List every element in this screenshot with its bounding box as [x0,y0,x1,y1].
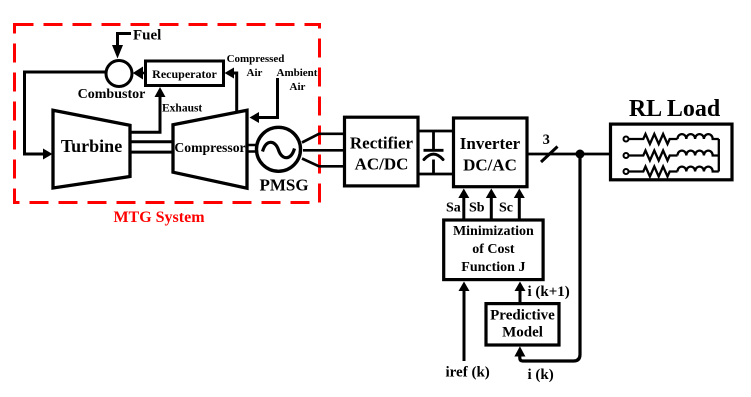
svg-text:Air: Air [247,67,263,79]
svg-text:3: 3 [543,132,550,148]
svg-text:RL Load: RL Load [629,96,721,122]
svg-text:Function J: Function J [461,260,525,275]
svg-text:PMSG: PMSG [259,176,308,195]
svg-text:Sc: Sc [499,201,513,216]
svg-text:Compressed: Compressed [227,53,285,65]
svg-text:Recuperator: Recuperator [152,67,217,81]
svg-text:i (k+1): i (k+1) [528,284,570,300]
svg-text:DC/AC: DC/AC [463,156,517,175]
svg-text:i (k): i (k) [528,367,554,383]
svg-text:Ambient: Ambient [277,67,318,79]
svg-text:Sa: Sa [446,201,461,216]
svg-text:Fuel: Fuel [133,28,161,44]
svg-text:MTG System: MTG System [113,209,205,226]
svg-text:AC/DC: AC/DC [355,155,409,174]
svg-text:Combustor: Combustor [78,87,146,102]
svg-text:Model: Model [502,325,543,341]
svg-text:Rectifier: Rectifier [350,134,414,153]
svg-text:Compressor: Compressor [174,140,245,155]
svg-text:of Cost: of Cost [472,242,515,257]
svg-text:Predictive: Predictive [490,308,555,324]
svg-text:iref (k): iref (k) [446,364,490,380]
svg-text:Inverter: Inverter [460,134,521,153]
svg-text:Sb: Sb [469,201,485,216]
svg-text:Exhaust: Exhaust [162,103,202,115]
svg-text:Minimization: Minimization [453,224,534,239]
svg-text:Turbine: Turbine [61,136,122,156]
svg-text:Air: Air [290,81,306,93]
